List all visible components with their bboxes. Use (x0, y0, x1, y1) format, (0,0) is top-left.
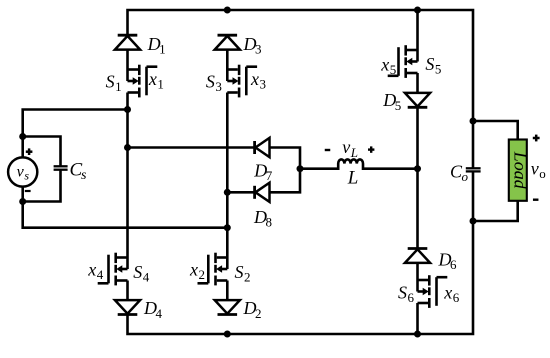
svg-text:4: 4 (97, 267, 104, 282)
svg-text:3: 3 (255, 41, 262, 56)
svg-text:8: 8 (266, 215, 273, 230)
svg-text:x: x (189, 259, 198, 279)
svg-text:1: 1 (115, 79, 122, 94)
svg-text:x: x (148, 69, 157, 89)
svg-text:L: L (347, 167, 359, 188)
svg-text:s: s (24, 168, 29, 182)
svg-text:v: v (342, 137, 350, 157)
svg-text:x: x (87, 259, 96, 279)
svg-text:S: S (425, 54, 434, 74)
svg-text:1: 1 (159, 41, 166, 56)
svg-text:L: L (350, 145, 358, 160)
svg-text:S: S (206, 71, 215, 91)
svg-text:x: x (380, 54, 389, 74)
svg-text:5: 5 (390, 62, 397, 77)
svg-text:v: v (531, 159, 539, 179)
svg-text:2: 2 (255, 306, 262, 321)
svg-text:o: o (462, 169, 469, 184)
svg-text:4: 4 (156, 306, 163, 321)
svg-text:o: o (539, 166, 546, 181)
svg-text:6: 6 (408, 290, 415, 305)
svg-text:S: S (133, 262, 142, 282)
svg-text:v: v (17, 163, 25, 180)
svg-text:s: s (81, 168, 87, 183)
svg-text:6: 6 (450, 257, 457, 272)
svg-text:x: x (250, 69, 259, 89)
svg-text:x: x (443, 283, 452, 303)
svg-text:Load: Load (510, 151, 530, 190)
svg-text:3: 3 (260, 77, 267, 92)
svg-text:5: 5 (395, 98, 402, 113)
svg-text:1: 1 (157, 77, 164, 92)
svg-text:4: 4 (143, 269, 150, 284)
svg-text:2: 2 (244, 269, 251, 284)
svg-text:S: S (235, 262, 244, 282)
svg-text:6: 6 (453, 290, 460, 305)
svg-text:S: S (106, 71, 115, 91)
svg-text:2: 2 (199, 267, 206, 282)
svg-text:3: 3 (215, 79, 222, 94)
svg-text:7: 7 (266, 168, 273, 183)
svg-text:S: S (398, 283, 407, 303)
svg-text:5: 5 (435, 61, 442, 76)
